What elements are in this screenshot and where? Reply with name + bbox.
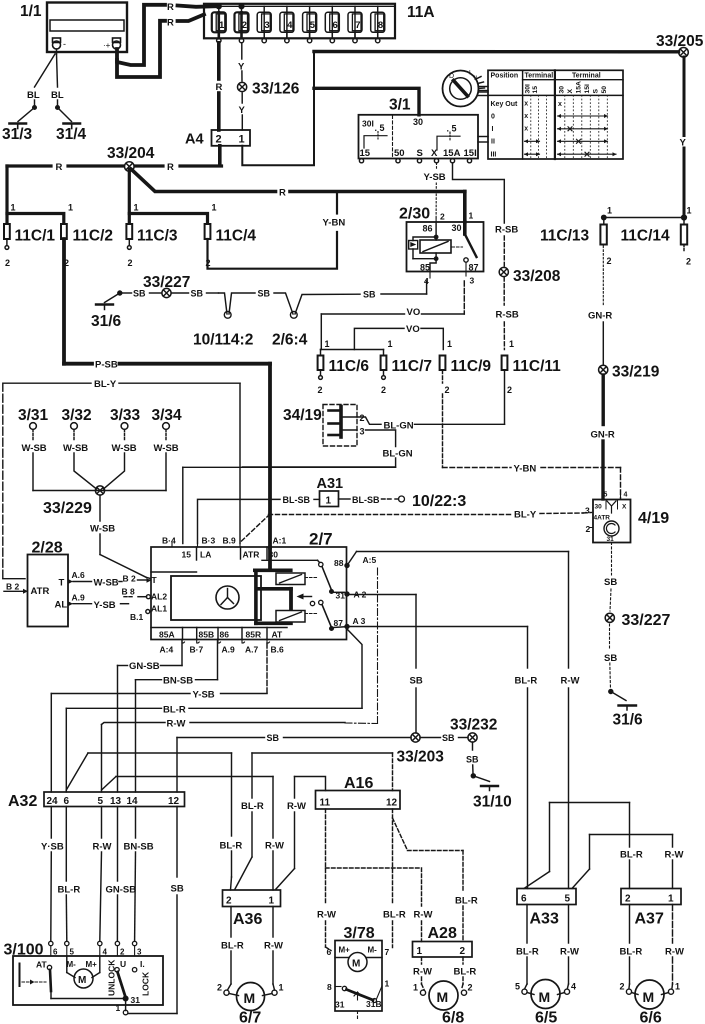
svg-text:x: x [524,126,528,133]
svg-text:Key Out: Key Out [491,101,519,108]
svg-text:M: M [352,959,360,970]
wire R-W A:5 down to A33 pin 5 [568,552,570,889]
wire link 11C/6 to 11C/7 [321,349,384,351]
svg-text:BL-GN: BL-GN [383,449,413,460]
svg-text:11C/6: 11C/6 [329,358,370,375]
svg-text:3/1: 3/1 [389,97,411,114]
svg-text:B 2: B 2 [6,582,20,592]
svg-text:BL-R: BL-R [620,850,643,861]
connector A32 [8,792,185,810]
junction dot fuse 1 bus [216,4,221,9]
wire VO relay pin 3 to 11C/6 [321,281,464,350]
wire R battery positive to fuse box (lower) [117,15,204,78]
wire BL-R A28 pin 2 to motor 6/8 [462,957,464,990]
svg-text:5: 5 [310,20,316,31]
ground 31/10 [471,774,511,811]
svg-text:SB: SB [258,289,271,299]
svg-text:BL-R: BL-R [516,947,539,958]
svg-text:1: 1 [413,983,418,993]
svg-text:33/208: 33/208 [513,268,561,285]
svg-text:BL: BL [27,90,40,101]
component 34/19 [283,405,365,447]
wire Y-SB B.6 pin to A32 pin 24 [51,643,267,792]
svg-text:2/7: 2/7 [309,530,333,549]
svg-text:1: 1 [675,982,680,992]
svg-text:M: M [643,989,655,1005]
svg-text:85B: 85B [199,630,215,640]
svg-text:2: 2 [507,385,512,395]
svg-text:11C/7: 11C/7 [392,358,433,375]
junction 33/205 [656,33,704,57]
svg-text:33/232: 33/232 [450,717,497,734]
svg-text:VO: VO [407,307,421,318]
fuse box 11A [204,4,435,39]
junction 33/227 right [605,612,670,629]
svg-text:B.9: B.9 [223,536,237,546]
svg-text:86: 86 [220,630,230,640]
junction 33/208 [499,267,561,285]
svg-text:R: R [56,162,63,173]
svg-text:A.9: A.9 [222,645,236,655]
wire 11C/13 pin 1 link [604,217,684,219]
svg-text:14: 14 [127,796,139,807]
wire R 33/204 leg to 11C/3 + 11C/4 [129,170,207,223]
connector 11C/3 [126,203,177,269]
svg-text:I: I [492,126,494,133]
svg-text:2: 2 [625,894,631,905]
svg-text:3: 3 [360,427,365,437]
svg-text:A32: A32 [8,793,37,810]
svg-text:M-: M- [67,960,77,969]
svg-text:3: 3 [470,276,475,286]
svg-text:BL-SB: BL-SB [283,495,311,505]
svg-text:GN-SB: GN-SB [106,885,137,896]
svg-text:31: 31 [335,1000,345,1010]
junction dot fuse 2 bus [239,4,244,9]
svg-text:GN-R: GN-R [588,311,612,322]
svg-text:A:5: A:5 [363,555,377,565]
svg-text:87: 87 [469,263,479,273]
svg-text:3: 3 [264,20,269,31]
svg-text:GN-SB: GN-SB [129,661,160,672]
svg-text:8: 8 [327,982,332,992]
svg-text:6: 6 [53,948,58,957]
relay 2/30 [399,206,484,287]
wire BL-R A16 pin 12 dashed to 3/78 pin 7 [392,809,394,948]
svg-text:11C/2: 11C/2 [73,228,114,245]
svg-text:33/229: 33/229 [43,500,92,517]
svg-text:B·7: B·7 [190,645,204,655]
battery 1/1 [20,3,127,55]
svg-text:Y-SB: Y-SB [94,600,116,611]
connector 11C/13 [540,206,612,267]
svg-text:R: R [279,188,286,199]
wire R-SB ignition 15A pin to 33/208 [453,163,505,266]
svg-text:R-W: R-W [287,801,306,812]
svg-text:. 5: . 5 [375,123,385,133]
svg-text:1: 1 [134,203,139,213]
svg-text:1: 1 [417,946,423,957]
svg-text:-: - [63,39,66,49]
wire R-W A28 pin 1 to motor 6/8 [422,957,425,990]
sensor 3/31 [18,407,49,491]
svg-text:6: 6 [327,947,332,957]
svg-text:33/227: 33/227 [622,612,671,629]
svg-text:LOCK: LOCK [141,971,151,996]
svg-text:2: 2 [216,134,222,146]
svg-text:AL1: AL1 [151,604,167,614]
svg-text:R-W: R-W [414,910,433,921]
svg-text:2: 2 [440,212,445,222]
svg-text:85: 85 [420,263,430,273]
svg-text:4/19: 4/19 [638,510,669,527]
wire BN-SB 86 pin to A32 pin 14 [136,640,218,793]
driver door lock switch 3/100 [4,941,164,1015]
svg-text:2: 2 [468,983,473,993]
wire SB 4/19 pin 31 to ground 31/6 right [610,543,612,690]
connector A31 [317,476,344,507]
fuse 2 [235,6,249,43]
wire R-W A16 pin 11 dashed to 3/78 pin 6 [326,809,332,951]
svg-text:Terminal: Terminal [572,73,601,80]
svg-text:B 2: B 2 [123,574,137,584]
svg-text:2/30: 2/30 [399,206,430,223]
connector A36 [223,890,281,928]
fuse 4 [280,6,294,43]
svg-text:50: 50 [394,148,405,159]
wire thick 11C/2 down to P-SB corner [62,239,66,364]
svg-text:1: 1 [668,894,674,905]
leads 3/1 to table [478,137,488,143]
svg-text:S: S [417,148,423,159]
svg-text:15: 15 [360,148,371,159]
svg-text:1: 1 [687,206,692,216]
svg-text:5: 5 [515,982,520,992]
wire R-W dash-dot link to A:5 [345,567,378,724]
wire R fuse 1 down to A4 pin 2 [217,43,221,130]
svg-text:5: 5 [604,492,608,499]
fuse 3 [257,6,271,43]
connector A4 [185,130,250,148]
2/7 internal relay circuit [255,548,345,631]
wire BL-R A.3 / A32 pin 6 [66,630,362,793]
svg-text:M: M [539,989,551,1005]
svg-text:1: 1 [269,896,275,907]
wire BL-Y solid to 2/7 pin B.9 [4,383,240,543]
ground 31/6 left [91,291,122,330]
connector A16 [316,775,401,809]
svg-text:4ATR: 4ATR [594,515,611,522]
connector 11C/11 [502,339,562,395]
svg-text:4: 4 [103,948,108,957]
connector 11C/7 [381,339,432,395]
svg-text:BL-R: BL-R [241,801,264,812]
wire W-SB 2/28 pin T/A.6 to 2/7 pin B 2 [68,578,151,584]
svg-text:15A: 15A [443,148,461,159]
svg-text:30: 30 [413,117,423,127]
svg-text:R-W: R-W [560,947,579,958]
pin S of 3/1 [417,159,421,163]
svg-text:1: 1 [607,206,612,216]
svg-text:30: 30 [559,86,566,94]
svg-text:2: 2 [120,948,125,957]
svg-text:1: 1 [11,203,16,213]
wire R-W A32 pin 5 to 3/100 pin 4 [100,807,102,942]
svg-text:1: 1 [509,339,514,349]
svg-text:BL-SB: BL-SB [352,495,380,505]
svg-text:Y-SB: Y-SB [193,690,215,701]
svg-text:R: R [216,82,223,93]
svg-text:x: x [558,101,562,108]
svg-text:34/19: 34/19 [283,407,322,424]
svg-text:R-W: R-W [561,676,580,687]
wire BL-GN/B.4 branch upper [183,467,396,543]
wire GN-R 11C/13 pin 2 down to 4/19 [602,246,604,499]
svg-text:85A: 85A [159,630,175,640]
svg-text:D: D [449,73,454,80]
svg-text:III: III [491,152,497,159]
svg-text:T: T [152,575,158,585]
svg-text:A:4: A:4 [160,645,174,655]
wire R battery positive to fuse bus (upper) [117,5,219,65]
wire BL right battery negative [51,54,72,122]
svg-text:2: 2 [686,257,691,267]
connector A28 [413,925,473,957]
wire Y-SB ignition X pin to relay pin 2 [435,163,437,218]
svg-text:S: S [593,89,600,94]
svg-text:M: M [244,990,256,1006]
connector 10/114:2 [193,293,255,349]
svg-text:31/6: 31/6 [613,712,644,729]
wire SB ground chain [123,292,219,294]
junction 33/229 [43,486,105,517]
svg-text:10/22:3: 10/22:3 [412,493,466,510]
pin 15A of 3/1 [450,159,454,163]
wire R bus horizontal [7,164,222,167]
svg-text:33/126: 33/126 [252,81,300,98]
svg-text:II: II [491,139,495,146]
svg-text:88: 88 [334,558,344,568]
svg-text:3/34: 3/34 [152,407,183,424]
svg-text:1: 1 [388,339,393,349]
svg-text:ATR: ATR [31,586,50,597]
wire R-SB 33/208 to 11C/11 [503,277,505,350]
svg-text:11A: 11A [407,4,435,21]
wire BL-Y dashed B.9 to 4/19 pin 3 [242,513,592,542]
svg-text:11: 11 [320,798,331,809]
wire BL-R A36 pin 2 to motor 6/7 [228,907,232,991]
svg-text:A33: A33 [530,911,559,928]
svg-text:B·4: B·4 [162,536,176,546]
wire BL-SB A31 to 10/22:3 [339,496,405,502]
svg-text:R-W: R-W [413,967,432,978]
wire BL-SB A31 line from B.3 [198,499,320,543]
wire R-W dashed branch to A28 pin 1 [326,868,422,942]
svg-text:6/5: 6/5 [535,1010,557,1024]
svg-text:6: 6 [521,894,527,905]
svg-text:30: 30 [595,504,603,511]
wire BL-R link A33 pin 6 to A37 pin 2 [524,803,630,889]
wire Y A4 pin 1 to ignition feed [242,52,314,166]
wire BL-R dashed branch to A28 pin 2 [393,818,464,942]
svg-text:31: 31 [131,995,141,1005]
svg-text:VO: VO [406,324,420,335]
svg-text:4: 4 [624,492,628,499]
svg-text:M+: M+ [86,960,98,969]
svg-text:6: 6 [64,796,70,807]
svg-text:SB: SB [191,289,204,299]
svg-text:A 2: A 2 [354,590,367,600]
inner ECU box with clock [151,575,261,620]
svg-text:LA: LA [200,550,211,560]
svg-text:UNLOCK: UNLOCK [107,959,117,996]
svg-text:SB: SB [171,884,184,895]
svg-text:SB: SB [410,676,423,687]
svg-text:A.7: A.7 [245,645,259,655]
svg-text:1: 1 [447,339,452,349]
svg-text:11C/3: 11C/3 [137,228,178,245]
svg-text:5: 5 [70,948,75,957]
wire A 2 from pin 31 to SB drop [345,592,416,733]
pin labels below 2/7 [160,645,285,655]
svg-text:3: 3 [585,506,590,516]
svg-text:4: 4 [287,20,293,31]
sensor 3/32 [62,407,97,489]
wire P-SB thick from 11C/2 to 2/7 pin A:1 [64,364,270,548]
svg-text:15I: 15I [464,148,477,159]
svg-text:2: 2 [620,982,625,992]
connector 11C/4 [205,203,257,269]
svg-text:3/33: 3/33 [110,407,141,424]
svg-text:Y: Y [680,138,687,149]
svg-text:B.1: B.1 [130,612,144,622]
svg-text:W-SB: W-SB [90,524,115,535]
wire R-W 2/7 row to A32 pin 5 [102,723,346,793]
junction 33/227 [143,274,190,298]
motor 6/8 [413,981,473,1024]
svg-text:2: 2 [318,385,323,395]
svg-text:11C/13: 11C/13 [540,228,590,245]
svg-text:1: 1 [212,203,217,213]
wire R-W A37 pin 1 to motor 6/6 [671,905,674,989]
wire Y-SB 2/28 pin AL/A.9 stub [68,601,129,606]
svg-text:31/4: 31/4 [56,126,87,143]
wire SB A32 pin 12 to 3/100 pin 1 [128,807,177,1014]
svg-text:5: 5 [565,894,571,905]
svg-text:12: 12 [168,796,180,807]
svg-text:M: M [437,989,449,1005]
svg-text:SB: SB [267,733,280,743]
wire W-SB 33/229 down to 2/7 pin T [100,495,151,579]
wire VO 11C/7 to 11C/9 [354,328,443,349]
svg-text:A37: A37 [635,911,664,928]
wire SB to relay pin 4 [381,281,427,294]
svg-text:M-: M- [368,946,378,955]
wire Y-BN 11C/4 pin2 elbow up to R line [208,193,338,269]
fuse 8 [371,6,385,43]
svg-text:A16: A16 [344,775,373,792]
svg-text:SB: SB [442,733,455,743]
svg-text:ATR: ATR [243,550,260,560]
wire feed top right to 33/205 [314,50,679,54]
svg-text:4: 4 [571,982,576,992]
fuse 5 [303,6,317,43]
svg-text:11C/14: 11C/14 [621,228,671,245]
svg-text:1/1: 1/1 [20,3,42,20]
connector A37 [621,889,681,928]
svg-text:1: 1 [239,134,245,146]
wire A:5 from pin 88 [345,552,569,568]
svg-text:. 5: . 5 [447,124,457,134]
wire R 33/204 diagonal branch to relay [132,170,465,223]
svg-text:1: 1 [385,979,390,989]
svg-text:BL-R: BL-R [455,896,478,907]
wire 30 feed to ignition switch 3/1 [314,88,419,115]
wire R left leg to 11C/1 + 11C/2 [7,166,64,223]
fuse 6 [325,6,339,43]
wire R-W A33 pin 5 to motor 6/5 [568,905,569,989]
central locking unit 2/7 [151,530,347,640]
svg-text:R-W: R-W [265,841,284,852]
svg-text:W-SB: W-SB [63,443,88,454]
svg-text:6/6: 6/6 [640,1010,662,1024]
svg-text:5: 5 [98,796,104,807]
svg-text:Y: Y [239,105,246,116]
svg-text:2: 2 [381,385,386,395]
svg-text:R-W: R-W [93,842,112,853]
svg-text:A28: A28 [428,925,457,942]
svg-text:6/7: 6/7 [239,1010,261,1024]
svg-text:P-SB: P-SB [95,360,118,371]
svg-text:3/78: 3/78 [344,925,375,942]
svg-text:R: R [167,18,174,29]
pin B.1 of 2/7 [130,610,150,623]
svg-text:BL-R: BL-R [58,885,81,896]
junction 33/219 [599,364,660,381]
wire R-W link A33 pin 5 to A37 pin 1 [572,835,673,889]
svg-text:11C/1: 11C/1 [15,228,56,245]
svg-text:33/204: 33/204 [107,145,155,162]
svg-text:BN-SB: BN-SB [163,676,193,687]
connector 11C/14 [621,206,692,267]
junction 33/126 [238,81,300,98]
svg-text:2: 2 [226,896,232,907]
svg-text:1: 1 [469,211,474,221]
svg-text:0: 0 [491,114,495,121]
svg-text:R-W: R-W [264,941,283,952]
svg-text:11C/9: 11C/9 [451,358,492,375]
svg-text:BL-Y: BL-Y [514,510,537,521]
svg-text:A.6: A.6 [72,570,86,580]
svg-text:1: 1 [279,983,284,993]
svg-text:Y: Y [238,62,245,73]
connector A33 [517,889,576,928]
svg-text:33/227: 33/227 [143,274,190,291]
pin 50 of 3/1 [396,159,400,163]
svg-text:GN-R: GN-R [591,430,615,441]
svg-text:15: 15 [182,550,192,560]
wire A32 pin 5 diagonal to A36/A16 link [102,777,274,791]
connector 11C/9 [440,339,492,395]
ignition key symbol [443,71,489,107]
wire Y fuse 2 down [241,43,244,130]
svg-text:A 3: A 3 [353,616,366,626]
svg-text:33/219: 33/219 [612,364,660,381]
wire BL-GN 34/19 pin 3 loop [243,430,396,467]
svg-text:4: 4 [424,276,429,286]
svg-text:Position: Position [491,72,519,79]
svg-text:86: 86 [423,224,433,234]
